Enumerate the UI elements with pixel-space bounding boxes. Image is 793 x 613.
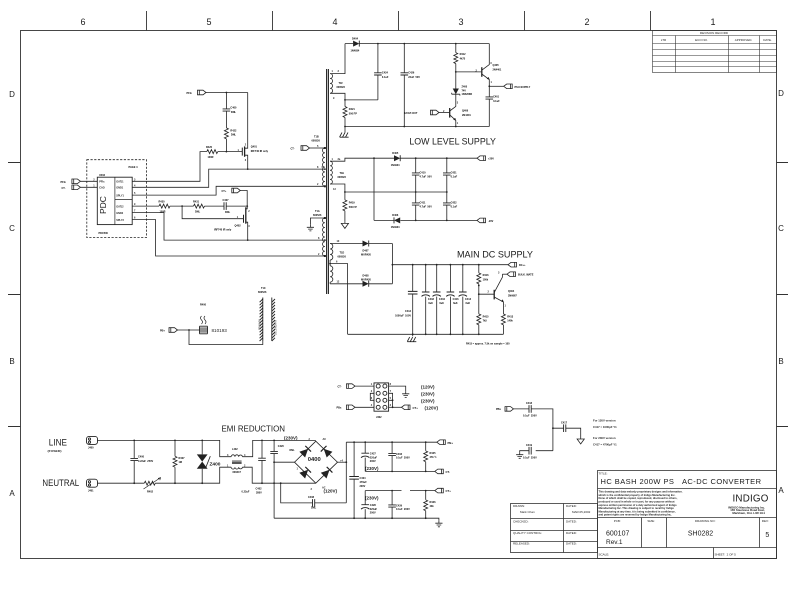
version notes <box>593 419 617 447</box>
svg-text:2N4401: 2N4401 <box>462 114 471 117</box>
capacitor C410 <box>415 158 417 192</box>
svg-text:600526: 600526 <box>338 255 347 258</box>
svg-text:DNL: DNL <box>290 449 296 452</box>
svg-text:MAIN DC SUPPLY: MAIN DC SUPPLY <box>457 249 533 259</box>
svg-text:1M: 1M <box>179 461 182 464</box>
wire CT+ to drain <box>240 191 247 207</box>
heater R400 810193 <box>178 329 200 331</box>
svg-text:MAR.05,2002: MAR.05,2002 <box>572 510 591 514</box>
PDC dashed box <box>87 160 147 238</box>
svg-text:SCALE:: SCALE: <box>599 552 610 556</box>
wire sply2 net <box>132 220 325 256</box>
svg-text:GAT(2: GAT(2 <box>116 205 124 208</box>
svg-text:R420: R420 <box>206 146 213 149</box>
svg-text:BULK_WATE: BULK_WATE <box>518 274 534 277</box>
svg-text:DNL: DNL <box>231 111 237 114</box>
svg-text:TITLE:: TITLE: <box>599 472 608 476</box>
wire main dc rail <box>392 264 508 266</box>
svg-text:D: D <box>778 89 784 98</box>
capacitor C400a <box>225 93 227 128</box>
varistor Z400 <box>201 440 203 483</box>
wire main dc bottom rail <box>348 333 504 335</box>
screen T1C primary bar <box>260 298 263 342</box>
ground J402 <box>402 391 409 397</box>
capacitor C400 <box>133 440 135 483</box>
ground flyback <box>340 133 349 138</box>
svg-text:T1D: T1D <box>340 252 345 255</box>
bridge diode top-right <box>321 446 333 458</box>
svg-text:(120V): (120V) <box>324 489 338 494</box>
capacitor C426 <box>403 44 405 127</box>
svg-text:6u8: 6u8 <box>466 302 471 305</box>
svg-text:C403: C403 <box>396 453 403 456</box>
wire J402 pin8 to ground <box>389 386 406 391</box>
svg-text:AC: AC <box>323 438 327 441</box>
svg-text:DRAWING NO:: DRAWING NO: <box>695 519 716 523</box>
svg-text:6u8: 6u8 <box>453 302 458 305</box>
wire gnd1 net <box>132 169 325 187</box>
svg-text:R415: R415 <box>483 315 490 318</box>
svg-text:R421: R421 <box>349 108 356 111</box>
wire neutral rail <box>98 467 232 483</box>
svg-text:0.1uF 200V: 0.1uF 200V <box>396 508 410 511</box>
svg-text:D: D <box>9 90 15 99</box>
svg-text:C404: C404 <box>360 477 367 480</box>
connector J401 <box>87 479 98 487</box>
svg-text:ECO NO.: ECO NO. <box>695 38 708 42</box>
svg-text:4.7uF 50V: 4.7uF 50V <box>420 176 433 179</box>
svg-text:C426: C426 <box>408 72 415 75</box>
capacitor C401 <box>488 86 490 126</box>
svg-text:CT-: CT- <box>338 386 342 389</box>
svg-text:PB+: PB+ <box>160 329 165 332</box>
svg-text:Z400: Z400 <box>462 86 468 89</box>
svg-text:-20V: -20V <box>488 220 494 223</box>
svg-text:0.1uF: 0.1uF <box>382 76 389 79</box>
svg-text:DNL: DNL <box>195 211 201 214</box>
right tick marks <box>777 163 789 427</box>
svg-text:C424: C424 <box>382 72 389 75</box>
transformer T1F winding <box>330 74 332 94</box>
svg-text:C421: C421 <box>451 171 458 174</box>
wire T1E bottom pin to mid rail <box>330 184 447 192</box>
resistor R431 <box>194 204 205 208</box>
capacitor C408 path <box>281 483 347 503</box>
inductor L402 top winding <box>231 455 242 457</box>
svg-text:U402: U402 <box>99 174 106 177</box>
vertical drop to D406 <box>373 158 375 220</box>
connector PB+ <box>437 440 446 445</box>
svg-text:R430: R430 <box>159 201 166 204</box>
ground R419 <box>341 222 348 229</box>
wire gate bypass <box>182 206 243 219</box>
svg-text:PBx: PBx <box>337 407 342 410</box>
svg-text:DNL: DNL <box>231 134 237 137</box>
transformer T1 core <box>327 69 329 294</box>
svg-text:SPLY1: SPLY1 <box>116 194 124 197</box>
svg-text:6u8: 6u8 <box>439 302 444 305</box>
svg-text:1: 1 <box>710 17 715 27</box>
svg-text:R413: R413 <box>507 315 514 318</box>
ground C417 <box>577 438 584 445</box>
svg-text:4k75: 4k75 <box>460 57 466 60</box>
svg-text:(230V): (230V) <box>365 495 379 500</box>
wire T1A top pin to ground <box>310 218 325 225</box>
svg-text:PDC500: PDC500 <box>99 232 109 235</box>
svg-text:SH0282: SH0282 <box>688 531 713 538</box>
resistor R407 <box>174 440 176 483</box>
svg-text:B: B <box>9 357 14 366</box>
svg-text:810193: 810193 <box>212 328 228 333</box>
svg-text:7k5: 7k5 <box>483 320 488 323</box>
junction dots EMI rails <box>133 440 203 485</box>
svg-text:PSU-SUPPLY: PSU-SUPPLY <box>515 86 531 89</box>
wire C420 to bridge left <box>274 461 294 463</box>
connector PFIx into PDC <box>72 179 81 184</box>
svg-text:(FUSED): (FUSED) <box>48 449 62 453</box>
svg-text:4: 4 <box>332 17 337 27</box>
svg-text:DATED:: DATED: <box>566 542 577 546</box>
svg-text:PRIMARY: PRIMARY <box>258 319 261 330</box>
svg-text:600526: 600526 <box>338 176 347 179</box>
svg-text:1N5266B: 1N5266B <box>462 93 473 96</box>
svg-text:R419: R419 <box>349 202 356 205</box>
capacitor C420 <box>273 440 275 518</box>
svg-text:2: 2 <box>584 17 589 27</box>
capacitor C428 <box>364 491 366 519</box>
zone row labels <box>9 89 784 498</box>
capacitor C434 <box>436 265 438 335</box>
transformer T1A primary winding <box>323 218 325 256</box>
svg-text:22uF 50V: 22uF 50V <box>408 76 420 79</box>
connector BULK_WATE <box>507 272 516 277</box>
capacitor C433 <box>425 265 427 335</box>
title block outline <box>511 471 777 559</box>
capacitor C402 <box>261 440 263 483</box>
svg-text:5: 5 <box>765 532 769 539</box>
svg-text:PFIx: PFIx <box>187 92 193 95</box>
svg-text:C417: C417 <box>561 421 568 424</box>
mosfet Q401 <box>242 93 247 170</box>
svg-text:5: 5 <box>206 17 211 27</box>
svg-text:CT+: CT+ <box>413 406 419 410</box>
wire J402 pin4 <box>355 406 374 408</box>
resistor R419 <box>344 192 346 222</box>
wire T1F top pin to rail <box>330 44 345 74</box>
resistor R425 <box>425 442 427 471</box>
svg-text:LINE: LINE <box>49 438 67 449</box>
resistor R421 <box>343 107 347 118</box>
connector PFIx top <box>198 90 207 95</box>
svg-text:J401: J401 <box>88 489 94 492</box>
svg-text:PB+: PB+ <box>448 441 454 445</box>
zener Z401 <box>455 72 457 89</box>
svg-text:1N4934: 1N4934 <box>391 164 400 167</box>
svg-text:LOW LEVEL SUPPLY: LOW LEVEL SUPPLY <box>409 137 496 147</box>
bridge diode bottom-left <box>299 467 311 479</box>
svg-text:IRF740 IR only: IRF740 IR only <box>214 229 232 232</box>
svg-text:0.1uF 200V: 0.1uF 200V <box>396 457 410 460</box>
svg-text:CT-: CT- <box>62 187 66 190</box>
svg-text:C417 = 1000pF Y1: C417 = 1000pF Y1 <box>593 425 617 429</box>
wire line top rail <box>98 440 232 456</box>
diode D405 <box>394 155 400 161</box>
svg-text:6: 6 <box>80 17 85 27</box>
svg-text:PAGE 4: PAGE 4 <box>129 166 139 169</box>
svg-text:DNL: DNL <box>311 507 317 510</box>
wire PFIx rail <box>206 92 248 94</box>
svg-text:R412: R412 <box>460 53 467 56</box>
voltage select labels <box>421 384 439 410</box>
svg-text:CT+: CT+ <box>222 190 227 193</box>
svg-text:47k ½: 47k ½ <box>430 455 437 459</box>
svg-text:PCB:: PCB: <box>614 519 621 523</box>
svg-text:PBx: PBx <box>496 408 501 411</box>
svg-text:C433: C433 <box>428 298 435 301</box>
svg-text:DATED:: DATED: <box>566 504 577 508</box>
capacitor C407 <box>224 202 226 210</box>
resistor R430 <box>159 204 170 208</box>
svg-text:C413: C413 <box>465 298 472 301</box>
svg-text:1N4934: 1N4934 <box>391 226 400 229</box>
svg-text:600526: 600526 <box>313 214 322 217</box>
ground T1A <box>307 225 314 231</box>
wire T1F bottom pin <box>330 93 345 106</box>
svg-text:C420: C420 <box>278 445 285 448</box>
wire pin3 gate1 <box>132 152 207 182</box>
zone column labels <box>80 17 715 27</box>
wire bridge right corner <box>338 461 347 463</box>
svg-text:D405: D405 <box>392 152 399 155</box>
svg-text:Q401: Q401 <box>251 146 258 149</box>
wire T1D pin12 to D408 <box>330 283 392 285</box>
diode D407 <box>363 241 369 247</box>
connector CT- into J402 <box>347 384 356 389</box>
svg-text:L402: L402 <box>232 448 238 451</box>
svg-text:A: A <box>9 489 15 498</box>
svg-text:C434: C434 <box>439 298 446 301</box>
svg-text:1N4934: 1N4934 <box>351 50 360 53</box>
svg-text:0.22uF: 0.22uF <box>242 491 250 494</box>
svg-text:PDC: PDC <box>98 196 108 214</box>
svg-text:0400: 0400 <box>308 457 321 463</box>
junction dots flyback <box>377 43 457 128</box>
mosfet Q402 <box>244 206 248 240</box>
svg-text:T1B: T1B <box>314 136 319 139</box>
svg-text:DATED:: DATED: <box>566 520 577 524</box>
svg-text:6u8: 6u8 <box>428 302 433 305</box>
svg-text:MUR420: MUR420 <box>361 253 371 256</box>
svg-text:R407: R407 <box>179 457 186 460</box>
connector DC++ <box>508 262 517 267</box>
svg-text:100k: 100k <box>483 278 489 281</box>
svg-text:2N6667: 2N6667 <box>508 294 517 297</box>
svg-text:T1A: T1A <box>315 210 320 213</box>
capacitor C416 <box>449 265 451 335</box>
svg-text:PFIx: PFIx <box>99 181 105 184</box>
svg-text:and patent rights are reserved: and patent rights are reserved by Indigo… <box>599 513 672 517</box>
svg-text:SHEET: 2 OF 5: SHEET: 2 OF 5 <box>715 552 737 556</box>
svg-text:DATED:: DATED: <box>566 531 577 535</box>
junction dots main dc <box>412 264 480 335</box>
svg-text:SPLY2: SPLY2 <box>116 219 124 222</box>
wire dc plus vertical <box>345 442 347 503</box>
svg-text:T1E: T1E <box>340 172 345 175</box>
diode D404 <box>345 43 489 45</box>
wire T1D pin10 to D407 <box>330 243 392 245</box>
svg-text:200V: 200V <box>360 485 366 488</box>
capacitor C412 <box>412 265 414 335</box>
svg-text:DNL: DNL <box>225 211 231 214</box>
svg-text:470uF: 470uF <box>360 481 368 484</box>
svg-text:0.1uF 250V: 0.1uF 250V <box>523 457 537 460</box>
wire bulk to Q404 collector <box>502 273 507 275</box>
svg-text:C401: C401 <box>493 96 500 99</box>
wire J402 pin3 to CT+ <box>389 406 402 408</box>
svg-text:C429: C429 <box>396 504 403 507</box>
svg-text:GND2: GND2 <box>116 212 124 215</box>
svg-text:D404: D404 <box>352 38 359 41</box>
bridge diode top-left <box>299 446 311 458</box>
svg-text:INDIGO: INDIGO <box>733 494 769 505</box>
diode D408 <box>363 281 369 287</box>
wire flyback bottom rail <box>345 126 489 128</box>
svg-text:GND1: GND1 <box>116 187 124 190</box>
transformer T1D winding lower <box>330 266 333 282</box>
svg-text:280V: 280V <box>256 491 262 494</box>
svg-text:PFIx: PFIx <box>61 181 67 184</box>
svg-text:Rev.1: Rev.1 <box>606 539 623 546</box>
left tick marks <box>8 163 21 427</box>
svg-text:C411: C411 <box>420 201 426 204</box>
wire heater return to screen <box>189 330 263 345</box>
wire choke to bridge bottom <box>242 467 315 483</box>
connector block J402 <box>374 383 389 411</box>
svg-text:D407: D407 <box>363 250 370 253</box>
svg-text:CT-: CT- <box>291 148 295 151</box>
wire ct mid rail <box>365 470 435 472</box>
svg-text:C427: C427 <box>370 453 377 456</box>
IC U402 PDC <box>97 177 132 224</box>
bridge rectifier D400 diamond <box>295 441 338 483</box>
svg-text:(230V): (230V) <box>284 436 298 441</box>
connector PBx into J402 <box>347 405 356 410</box>
svg-text:2N4401: 2N4401 <box>493 68 502 71</box>
transformer T1B primary winding <box>323 148 325 186</box>
svg-text:Q406: Q406 <box>462 110 469 113</box>
capacitor C429 <box>391 491 393 519</box>
screen T1C secondary bar <box>272 298 275 342</box>
connector +20V <box>477 156 486 161</box>
connector -20V <box>477 218 486 223</box>
svg-text:600107: 600107 <box>606 530 629 537</box>
svg-text:B: B <box>778 357 783 366</box>
svg-text:J402: J402 <box>376 416 382 419</box>
svg-text:0.1uF: 0.1uF <box>451 176 458 179</box>
svg-text:C422: C422 <box>451 201 458 204</box>
svg-text:3: 3 <box>458 17 463 27</box>
svg-text:+20V: +20V <box>488 158 494 161</box>
svg-text:C419: C419 <box>526 444 533 447</box>
svg-text:C417 = 4700pF Y1: C417 = 4700pF Y1 <box>593 443 617 447</box>
resistor R426 <box>425 491 427 519</box>
svg-text:APPROVED.: APPROVED. <box>735 38 753 42</box>
capacitor C419 <box>520 451 553 453</box>
svg-text:NEUTRAL: NEUTRAL <box>42 478 79 489</box>
capacitor C418 <box>514 409 553 451</box>
svg-text:200V: 200V <box>370 460 376 463</box>
wire gnd2 net <box>132 213 325 241</box>
svg-text:A: A <box>778 486 784 495</box>
svg-text:R402: R402 <box>147 491 154 494</box>
svg-text:D408: D408 <box>363 275 370 278</box>
svg-text:Q402: Q402 <box>235 225 242 228</box>
svg-text:C400: C400 <box>230 107 237 110</box>
svg-text:REV:: REV: <box>762 519 769 523</box>
connector CAO into PDC <box>72 185 81 190</box>
svg-text:220uF: 220uF <box>370 508 378 511</box>
wire J402 right bracket pins 7-5-3 <box>389 393 393 407</box>
resistor R415 <box>477 314 481 325</box>
svg-text:600526: 600526 <box>337 86 346 89</box>
ground main dc <box>412 334 414 336</box>
svg-text:CT-: CT- <box>446 470 451 474</box>
svg-text:Mark Chan: Mark Chan <box>520 510 535 514</box>
svg-text:DRAWN:: DRAWN: <box>513 504 525 508</box>
svg-text:For 230V version: For 230V version <box>593 436 616 440</box>
svg-text:QUALITY CONTROL:: QUALITY CONTROL: <box>513 531 542 535</box>
svg-text:IRF740 IR only: IRF740 IR only <box>251 150 269 153</box>
wire ct+ rail <box>365 490 435 492</box>
connector CT- <box>435 469 444 474</box>
wire low level bottom rail <box>374 219 477 221</box>
connector CT+ mid <box>232 188 241 193</box>
capacitor C422 <box>446 192 448 220</box>
svg-text:T1F: T1F <box>339 82 344 85</box>
capacitor C403 <box>391 442 393 471</box>
transformer T1E winding <box>330 161 332 184</box>
svg-text:R425: R425 <box>430 452 437 455</box>
resistor R413 <box>501 314 505 325</box>
svg-text:600526: 600526 <box>258 291 267 294</box>
svg-text:C: C <box>778 224 784 233</box>
svg-text:0.22uF 250V: 0.22uF 250V <box>138 460 153 463</box>
svg-text:T1C: T1C <box>261 287 266 290</box>
connector J400 <box>87 436 98 444</box>
svg-text:C416: C416 <box>453 298 460 301</box>
thermistor R402 NTC <box>144 481 155 485</box>
svg-text:LTR: LTR <box>661 38 667 42</box>
svg-text:C418: C418 <box>526 402 533 405</box>
wire low level top rail <box>330 158 477 161</box>
wire PDC left pins <box>80 181 97 187</box>
svg-text:HC BASH 200W PS AC-DC CONVER: HC BASH 200W PS AC-DC CONVERTER <box>601 477 762 486</box>
wire dc top rail <box>346 441 437 443</box>
svg-text:4.7uF 50V: 4.7uF 50V <box>420 206 433 209</box>
ground C419 <box>516 452 523 458</box>
svg-text:C402: C402 <box>256 488 263 491</box>
resistor R420 <box>207 150 218 154</box>
junction dots low level <box>344 157 448 221</box>
svg-text:(230V): (230V) <box>421 399 435 404</box>
svg-text:R426: R426 <box>430 501 437 504</box>
svg-text:Z400: Z400 <box>210 462 221 468</box>
wire J402 left bracket pins 2-6 <box>370 393 374 400</box>
wire sply1 net <box>132 186 325 195</box>
svg-text:For 120V version: For 120V version <box>593 419 616 423</box>
svg-text:C412: C412 <box>405 310 412 313</box>
resistor R412 <box>455 44 457 72</box>
